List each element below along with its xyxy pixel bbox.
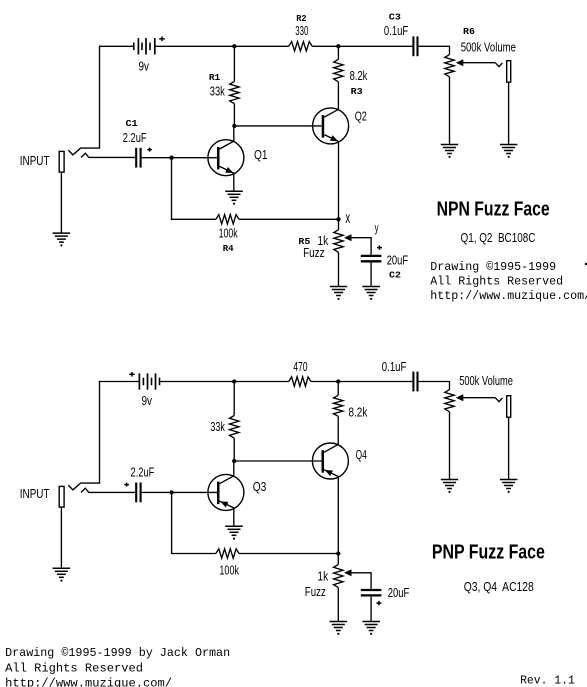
- svg-text:Drawing ©1995-1999 by Jack Orm: Drawing ©1995-1999 by Jack Orman: [5, 646, 230, 660]
- output jack tip contact (PNP): [495, 398, 502, 402]
- svg-text:INPUT: INPUT: [20, 486, 50, 501]
- wire: node H to Q4 base: [234, 460, 322, 462]
- svg-text:Q1: Q1: [254, 147, 268, 162]
- svg-text:Rev. 1.1: Rev. 1.1: [520, 674, 575, 687]
- wire: C2 to ground: [370, 263, 372, 287]
- wire: R3 to Q2 collector: [337, 82, 339, 110]
- output jack sleeve (NPN): [507, 61, 511, 82]
- 20uF + polarity marker (PNP): [376, 601, 381, 605]
- wire: 1k bottom to ground (PNP): [337, 588, 339, 622]
- battery + terminal marker (PNP): [129, 372, 135, 377]
- text stray period (right edge): [585, 263, 587, 265]
- svg-text:2.2uF: 2.2uF: [123, 130, 147, 145]
- wire: fuzz node to 1k pot: [337, 554, 339, 565]
- transistor Q1 (NPN): [208, 140, 244, 176]
- wire: node F to 0.1uF cap: [338, 381, 412, 383]
- output jack sleeve (PNP): [507, 396, 511, 418]
- node F junction dot (470/8.2k/0.1uF): [336, 379, 340, 383]
- transistor Q4 (PNP): [312, 443, 348, 479]
- wire: 20uF to ground (PNP): [370, 597, 372, 622]
- wire: node x to R5: [338, 219, 340, 229]
- wire: node D to Q2 base: [234, 125, 321, 127]
- wire: node G down to 100k: [172, 492, 216, 553]
- svg-text:1k: 1k: [317, 568, 328, 583]
- wire: 500k wiper to output jack (PNP): [462, 397, 496, 399]
- wire: output jack sleeve to ground: [508, 82, 510, 145]
- wire: Q1 collector to node D: [233, 126, 235, 141]
- svg-text:Fuzz: Fuzz: [305, 584, 326, 599]
- potentiometer 1k Fuzz (PNP element): [334, 564, 343, 587]
- wire: input jack sleeve to ground: [60, 172, 62, 233]
- C2 + polarity marker: [377, 245, 382, 249]
- wire: 8.2k to Q4 collector: [337, 416, 339, 445]
- wire: R6 wiper to output jack: [462, 62, 496, 64]
- svg-text:All Rights Reserved: All Rights Reserved: [5, 661, 143, 675]
- wire: node B to C3: [338, 45, 412, 47]
- wire: 33k bottom to node H: [233, 438, 235, 461]
- wire: 500k bottom to ground (PNP): [449, 412, 451, 480]
- svg-text:NPN Fuzz Face: NPN Fuzz Face: [437, 199, 550, 221]
- node C junction dot (C1/Q1 base/R4): [169, 156, 173, 160]
- capacitor C2 20uF: [361, 256, 382, 261]
- capacitor C1 2.2uF: [136, 148, 140, 168]
- ground (1k pot, PNP): [330, 622, 348, 635]
- node B junction dot (R2/R3/C3): [336, 44, 340, 48]
- svg-text:Drawing ©1995-1999: Drawing ©1995-1999: [430, 260, 556, 274]
- C1 + polarity marker: [147, 148, 152, 152]
- svg-text:y: y: [375, 221, 379, 235]
- wire: node F down to 8.2k: [337, 382, 339, 396]
- wire: node A down to R1: [233, 46, 235, 81]
- svg-text:9v: 9v: [142, 393, 153, 408]
- svg-text:R3: R3: [351, 86, 364, 97]
- svg-text:0.1uF: 0.1uF: [384, 23, 408, 38]
- wire: node E to 470 resistor: [234, 381, 289, 383]
- output jack tip contact (NPN): [495, 63, 502, 67]
- ground (Q3 emitter): [225, 526, 243, 539]
- battery + terminal marker (NPN): [159, 37, 165, 42]
- svg-text:PNP Fuzz Face: PNP Fuzz Face: [432, 542, 545, 564]
- svg-text:8.2k: 8.2k: [350, 68, 368, 83]
- svg-text:Q3, Q4 AC128: Q3, Q4 AC128: [464, 580, 534, 594]
- potentiometer 1k wiper arrow (PNP): [344, 569, 352, 576]
- svg-text:100k: 100k: [219, 226, 238, 241]
- resistor R3 8.2k: [334, 59, 343, 82]
- svg-text:500k Volume: 500k Volume: [459, 373, 513, 388]
- wire: Q3 collector to node H: [233, 461, 235, 476]
- svg-text:Q1, Q2 BC108C: Q1, Q2 BC108C: [461, 231, 536, 245]
- svg-text:9v: 9v: [139, 58, 150, 73]
- node D junction dot (R1/Q1 collector/Q2 base): [232, 124, 236, 128]
- battery 9v (PNP supply): [139, 373, 159, 389]
- transistor Q2 (NPN): [313, 108, 349, 144]
- svg-text:C2: C2: [389, 269, 401, 280]
- wire: node C to Q1 base: [172, 157, 218, 159]
- wire: output jack sleeve to ground (PNP): [508, 417, 510, 480]
- wire: 470 to node F: [311, 381, 338, 383]
- wire: R1 bottom to node D: [233, 104, 235, 126]
- ground (input jack, PNP): [53, 568, 71, 581]
- svg-text:R4: R4: [223, 243, 234, 254]
- node H junction dot (33k/Q3 collector/Q4 base): [232, 459, 236, 463]
- battery 9v (NPN supply): [134, 38, 155, 54]
- svg-text:500k Volume: 500k Volume: [461, 40, 516, 55]
- potentiometer R5 wiper arrow: [344, 234, 352, 241]
- wire: input jack sleeve to ground (PNP): [60, 507, 62, 568]
- svg-text:20uF: 20uF: [387, 252, 408, 267]
- potentiometer 500k wiper arrow (PNP): [456, 394, 464, 401]
- svg-text:33k: 33k: [210, 83, 225, 98]
- svg-text:http://www.muzique.com/: http://www.muzique.com/: [5, 677, 172, 687]
- 2.2uF + polarity marker (PNP): [124, 483, 129, 487]
- wire: battery to node E: [160, 381, 235, 383]
- capacitor 20uF (PNP): [361, 590, 382, 595]
- ground (Q1 emitter): [225, 191, 243, 204]
- svg-text:C3: C3: [389, 12, 401, 23]
- wire: Q4 emitter to fuzz node: [337, 477, 339, 554]
- wire: Q2 emitter to node x: [338, 141, 340, 219]
- resistor 8.2k (PNP): [334, 395, 343, 416]
- svg-text:All Rights Reserved: All Rights Reserved: [430, 274, 563, 288]
- input jack sleeve (PNP): [59, 486, 64, 507]
- svg-text:R1: R1: [209, 72, 221, 83]
- ground (C2 bottom): [362, 287, 380, 300]
- wire: Q1 emitter to ground: [233, 173, 235, 191]
- potentiometer 500k volume (PNP element): [445, 390, 454, 412]
- svg-text:Q4: Q4: [356, 447, 367, 462]
- resistor 100k (PNP): [216, 549, 239, 558]
- ground (500k pot, PNP): [441, 480, 458, 493]
- wire: R6 bottom to ground: [449, 77, 451, 145]
- input jack sleeve (NPN): [59, 151, 64, 172]
- ground (20uF, PNP): [362, 622, 380, 635]
- wire: Q3 emitter to ground: [233, 508, 235, 526]
- potentiometer R6 500k (element): [445, 55, 454, 77]
- potentiometer R6 wiper arrow: [456, 59, 464, 66]
- resistor 470 (PNP): [289, 377, 311, 386]
- capacitor 0.1uF (PNP output cap): [413, 372, 417, 392]
- wire: battery + to node A: [155, 45, 235, 47]
- wire: R5 bottom to ground: [338, 252, 340, 286]
- svg-text:http://www.muzique.com/: http://www.muzique.com/: [430, 289, 587, 303]
- transistor Q3 (PNP): [208, 474, 244, 510]
- wire: 0.1uF to volume pot: [419, 382, 450, 390]
- resistor R4 100k: [216, 215, 239, 224]
- ground (R5 bottom): [330, 287, 347, 300]
- wire: node E down to 33k: [233, 382, 235, 416]
- resistor R1 33k: [230, 81, 239, 103]
- node A junction dot (V+ rail / R1 top): [232, 44, 236, 48]
- fuzz node junction dot (PNP): [336, 551, 340, 555]
- svg-text:470: 470: [293, 359, 307, 374]
- input jack switch contact to battery (NPN): [68, 46, 134, 155]
- resistor 33k (PNP): [230, 416, 239, 439]
- svg-text:x: x: [345, 210, 350, 227]
- svg-text:8.2k: 8.2k: [349, 404, 368, 419]
- svg-text:Q2: Q2: [355, 108, 367, 123]
- svg-text:100k: 100k: [219, 562, 239, 577]
- wire: node A to R2: [234, 45, 288, 47]
- wire: R4 to node x: [239, 218, 339, 220]
- ground (output jack, NPN): [500, 145, 518, 158]
- wire: 100k to fuzz node: [239, 553, 338, 555]
- wire: node B down to R3: [337, 46, 339, 59]
- svg-text:Fuzz: Fuzz: [303, 245, 325, 260]
- input jack switch contact to battery (PNP): [68, 382, 139, 490]
- node x junction dot: [336, 217, 340, 221]
- input jack tip contact (NPN): [81, 153, 135, 157]
- wire: 2.2uF to node G: [142, 491, 172, 493]
- input jack tip contact (PNP): [81, 488, 135, 492]
- svg-text:R6: R6: [463, 26, 475, 37]
- ground (input jack, NPN): [53, 233, 71, 246]
- wire: node G to Q3 base: [172, 491, 217, 493]
- node E junction dot (rail / 33k top): [232, 379, 236, 383]
- node G junction dot (2.2uF/Q3 base/100k): [169, 490, 173, 494]
- wire: R2 to node B: [312, 45, 338, 47]
- svg-text:20uF: 20uF: [388, 585, 410, 600]
- svg-text:2.2uF: 2.2uF: [131, 465, 155, 480]
- wire: C3 to volume pot R6: [419, 46, 450, 54]
- potentiometer R5 1k Fuzz (element): [334, 230, 343, 253]
- capacitor C3 0.1uF: [413, 36, 417, 56]
- svg-text:C1: C1: [126, 118, 139, 129]
- wire: R5 wiper to C2: [350, 238, 372, 255]
- svg-text:Q3: Q3: [253, 479, 267, 494]
- svg-text:330: 330: [295, 23, 308, 38]
- wire: 1k wiper to 20uF: [350, 573, 372, 589]
- ground (output jack, PNP): [500, 480, 518, 493]
- capacitor 2.2uF (PNP input cap): [136, 483, 140, 503]
- wire: C1 to node C: [142, 157, 172, 159]
- svg-text:33k: 33k: [210, 419, 225, 434]
- wire: node C down to R4: [172, 158, 216, 220]
- svg-text:INPUT: INPUT: [20, 153, 50, 168]
- svg-text:0.1uF: 0.1uF: [382, 359, 407, 374]
- resistor R2 330: [289, 42, 313, 51]
- ground (R6 bottom, NPN): [441, 145, 458, 158]
